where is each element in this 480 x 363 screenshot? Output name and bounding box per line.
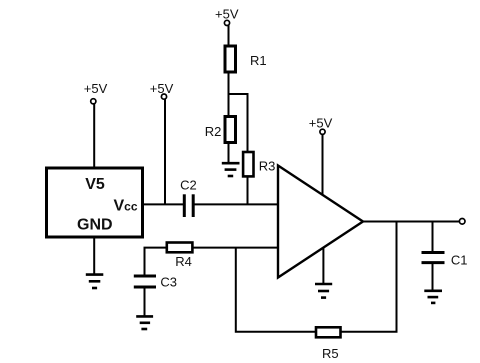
svg-text:R2: R2: [205, 124, 222, 139]
svg-text:C3: C3: [160, 275, 177, 290]
svg-text:R3: R3: [259, 158, 276, 173]
svg-text:R1: R1: [250, 53, 267, 68]
svg-text:+5V: +5V: [84, 81, 108, 96]
svg-text:C2: C2: [180, 178, 197, 193]
svg-text:GND: GND: [77, 217, 113, 234]
svg-text:R4: R4: [175, 254, 192, 269]
svg-text:+5V: +5V: [150, 81, 174, 96]
svg-text:+5V: +5V: [309, 116, 333, 131]
svg-text:C1: C1: [451, 252, 468, 267]
svg-text:+5V: +5V: [215, 7, 239, 22]
svg-text:Vcc: Vcc: [114, 198, 138, 215]
svg-text:V5: V5: [85, 176, 105, 193]
svg-text:R5: R5: [322, 346, 339, 361]
